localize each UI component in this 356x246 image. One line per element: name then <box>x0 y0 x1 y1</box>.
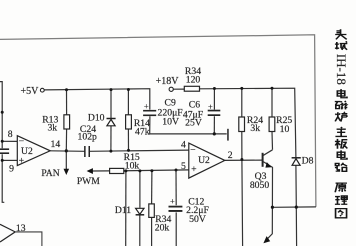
svg-text:PAN: PAN <box>41 168 59 179</box>
svg-text:13: 13 <box>16 223 26 234</box>
svg-text:D10: D10 <box>88 113 105 124</box>
svg-text:+: + <box>191 164 196 175</box>
svg-text:5: 5 <box>181 161 186 172</box>
svg-text:+18V: +18V <box>156 76 180 87</box>
svg-text:IH-18: IH-18 <box>334 54 349 85</box>
svg-text:−: − <box>190 145 195 156</box>
svg-text:−: − <box>19 136 24 147</box>
svg-text:14: 14 <box>51 139 61 150</box>
svg-text:D11: D11 <box>115 205 131 216</box>
svg-text:4: 4 <box>181 139 186 150</box>
svg-text:47k: 47k <box>135 126 150 137</box>
svg-text:9: 9 <box>9 163 14 174</box>
svg-text:10k: 10k <box>125 160 140 171</box>
svg-text:+: + <box>208 101 213 111</box>
svg-text:102p: 102p <box>78 132 98 143</box>
svg-text:20k: 20k <box>155 223 170 234</box>
svg-text:50V: 50V <box>189 214 206 225</box>
svg-text:D8: D8 <box>302 155 314 166</box>
svg-text:+: + <box>170 196 175 206</box>
svg-text:3k: 3k <box>250 123 260 134</box>
svg-text:3k: 3k <box>47 123 57 134</box>
svg-text:+: + <box>19 156 24 167</box>
svg-text:+5V: +5V <box>20 86 39 97</box>
svg-text:120: 120 <box>186 75 201 86</box>
svg-text:2: 2 <box>228 150 233 161</box>
svg-text:U2: U2 <box>198 155 210 166</box>
svg-text:+: + <box>144 101 149 111</box>
svg-text:8: 8 <box>8 129 13 140</box>
svg-text:PWM: PWM <box>77 176 100 187</box>
svg-text:25V: 25V <box>185 118 202 129</box>
svg-text:10: 10 <box>280 124 290 135</box>
svg-text:10V: 10V <box>162 117 179 128</box>
svg-text:8050: 8050 <box>250 180 270 191</box>
